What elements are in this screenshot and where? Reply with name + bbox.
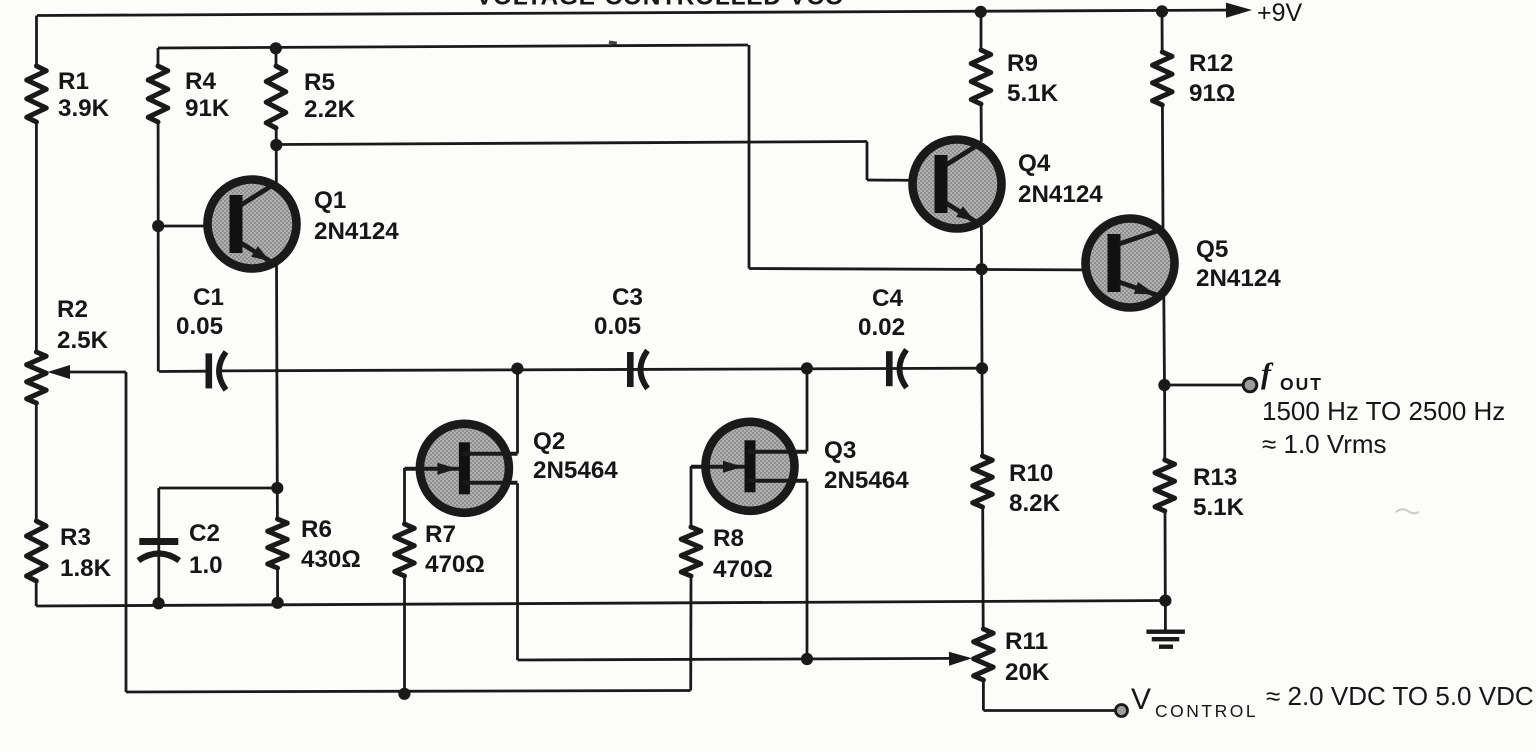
svg-text:0.02: 0.02 [858,314,905,341]
svg-text:R12: R12 [1189,50,1233,77]
svg-text:R3: R3 [60,524,91,551]
svg-text:470Ω: 470Ω [425,551,485,578]
svg-text:C4: C4 [872,285,903,312]
svg-text:R4: R4 [185,68,216,95]
svg-text:2N5464: 2N5464 [824,467,909,494]
svg-text:2.2K: 2.2K [304,96,356,123]
svg-text:C3: C3 [612,284,643,311]
svg-text:VOLTAGE-CONTROLLED VCO: VOLTAGE-CONTROLLED VCO [476,0,844,10]
svg-text:2.5K: 2.5K [57,327,109,354]
svg-text:3.9K: 3.9K [58,95,110,122]
svg-text:2N5464: 2N5464 [533,457,618,484]
svg-text:91Ω: 91Ω [1189,80,1235,107]
svg-text:+9V: +9V [1257,0,1303,27]
svg-text:1500 Hz TO 2500 Hz: 1500 Hz TO 2500 Hz [1262,396,1505,426]
svg-text:1.0: 1.0 [189,552,223,579]
svg-text:R2: R2 [57,296,88,323]
svg-text:≈ 1.0 Vrms: ≈ 1.0 Vrms [1262,429,1387,459]
svg-text:0.05: 0.05 [176,313,223,340]
svg-text:2N4124: 2N4124 [1018,181,1103,208]
svg-text:R11: R11 [1005,628,1048,655]
svg-text:OUT: OUT [1280,374,1323,394]
svg-text:C1: C1 [193,284,224,311]
svg-text:Q3: Q3 [824,437,856,464]
svg-text:5.1K: 5.1K [1007,80,1059,107]
svg-text:R13: R13 [1193,464,1237,491]
svg-text:≈ 2.0 VDC TO 5.0 VDC: ≈ 2.0 VDC TO 5.0 VDC [1266,681,1534,711]
svg-text:Q1: Q1 [314,187,346,214]
svg-text:470Ω: 470Ω [713,556,773,583]
svg-text:Q4: Q4 [1018,150,1051,177]
svg-text:CONTROL: CONTROL [1155,701,1258,721]
svg-text:430Ω: 430Ω [301,546,361,573]
svg-text:91K: 91K [185,95,230,122]
svg-text:R1: R1 [58,68,89,95]
svg-text:0.05: 0.05 [594,313,641,340]
svg-text:2N4124: 2N4124 [1196,265,1281,292]
svg-text:C2: C2 [189,520,220,547]
svg-text:2N4124: 2N4124 [314,218,399,245]
svg-text:Q2: Q2 [533,428,565,455]
svg-text:20K: 20K [1005,659,1050,686]
svg-text:R9: R9 [1007,50,1038,77]
svg-text:R7: R7 [425,521,456,548]
svg-text:5.1K: 5.1K [1193,494,1245,521]
svg-text:R8: R8 [713,525,744,552]
svg-text:1.8K: 1.8K [60,555,112,582]
svg-text:V: V [1131,683,1151,716]
svg-text:8.2K: 8.2K [1009,490,1061,517]
svg-text:R6: R6 [301,516,332,543]
svg-text:Q5: Q5 [1196,236,1228,263]
svg-text:R10: R10 [1009,460,1053,487]
svg-text:R5: R5 [304,69,335,96]
